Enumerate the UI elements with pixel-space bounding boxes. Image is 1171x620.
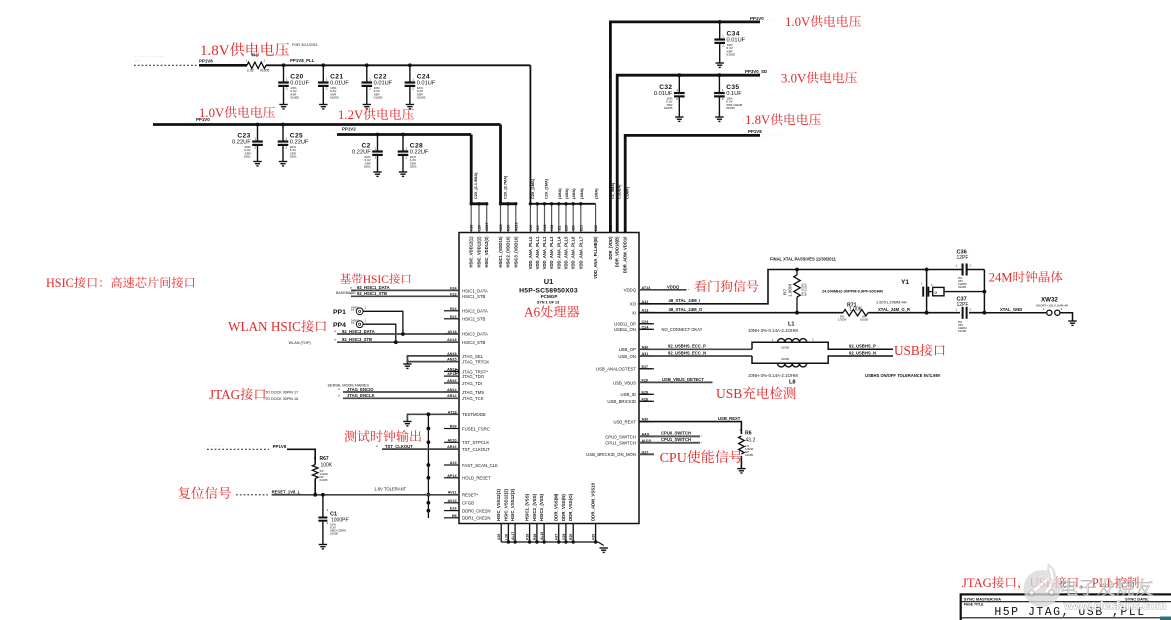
wire XW32 to ground: [1060, 313, 1073, 321]
wire USB N through choke: [752, 356, 893, 363]
wire PP1V8 to R67: [287, 449, 315, 464]
wire HSIC3_DATA: [337, 333, 459, 335]
svg-text:1/32W: 1/32W: [838, 318, 847, 322]
wire C36 right: [983, 270, 985, 313]
svg-text:AE16: AE16: [514, 222, 518, 231]
capacitor C35: [718, 75, 720, 93]
wire PP1V8 to R1: [199, 64, 247, 67]
svg-text:HSIC2_DATA: HSIC2_DATA: [462, 309, 488, 314]
svg-text:J21: J21: [557, 225, 561, 231]
wire PP1V2 down: [470, 135, 473, 204]
svg-text:C32: C32: [659, 84, 672, 91]
svg-text:DDR_VSS(M): DDR_VSS(M): [554, 493, 559, 521]
svg-text:HSIC_VDD12(1): HSIC_VDD12(1): [469, 236, 474, 268]
svg-text:01005: 01005: [727, 53, 736, 57]
svg-text:1: 1: [255, 137, 257, 141]
svg-text:24M: 24M: [989, 271, 1013, 285]
svg-text:SHORT+102-0.1MM-4H: SHORT+102-0.1MM-4H: [1036, 303, 1068, 307]
capacitor C28: [402, 135, 404, 152]
wire TESTMODE to ground: [407, 414, 459, 421]
test clock output label: [344, 430, 356, 442]
svg-text:R29: R29: [569, 534, 573, 540]
svg-text:HSIC3_DATA: HSIC3_DATA: [462, 332, 488, 337]
pin bubble JTAG_TRST: [455, 370, 459, 374]
svg-text:1: 1: [327, 508, 329, 512]
svg-text:·· ··: ·· ··: [762, 136, 767, 140]
strap bus vertical: [427, 414, 429, 518]
svg-text:TST_CLKOUT: TST_CLKOUT: [385, 444, 413, 449]
svg-text:3.0V: 3.0V: [781, 71, 807, 85]
svg-text:L1: L1: [788, 322, 795, 328]
svg-text:2: 2: [812, 338, 814, 342]
svg-text:1: 1: [676, 88, 678, 92]
svg-text:C2X_[1MA]: C2X_[1MA]: [531, 178, 535, 199]
svg-text:C23: C23: [237, 132, 250, 139]
svg-text:92_HSIC3_DATA: 92_HSIC3_DATA: [342, 329, 375, 334]
resistor R67: [312, 465, 318, 479]
svg-text:12PF: 12PF: [957, 255, 969, 261]
svg-text:0201: 0201: [290, 155, 297, 159]
svg-text:1: 1: [405, 147, 407, 151]
svg-text:TP: TP: [351, 321, 355, 325]
svg-text:USB_OP: USB_OP: [619, 347, 637, 352]
junction C24: [408, 63, 412, 67]
wire PP1 to HSIC3_DATA: [363, 311, 403, 334]
junction C20: [282, 63, 286, 67]
junction C35: [718, 73, 722, 77]
svg-text:1.00K: 1.00K: [849, 307, 863, 313]
svg-text:· · · · · · · ·: · · · · · · · ·: [208, 444, 223, 448]
stub USB11_OP/ON: [639, 323, 652, 325]
svg-text:HSIC1_DATA: HSIC1_DATA: [462, 288, 488, 293]
wire XTAL_24M_O: [639, 312, 843, 314]
svg-text:2: 2: [722, 44, 724, 48]
watermark text 电子发烧友: [1062, 579, 1166, 613]
svg-text:„: „: [701, 440, 703, 444]
svg-text:USB_BRICKID_ON_MON: USB_BRICKID_ON_MON: [586, 452, 636, 457]
svg-text:C2X_[2.7MA]: C2X_[2.7MA]: [504, 175, 508, 199]
svg-text:1: 1: [246, 59, 248, 63]
svg-text:PP1V0: PP1V0: [196, 117, 210, 122]
svg-text:JTAG_ENCIO: JTAG_ENCIO: [347, 387, 374, 392]
baseband HSIC label: [340, 273, 351, 283]
svg-text:USB_ANALOGTEST: USB_ANALOGTEST: [596, 367, 636, 372]
wire PP1V0 down: [499, 125, 502, 204]
svg-text:1.8V: 1.8V: [745, 113, 771, 127]
svg-text:PP1V8: PP1V8: [273, 444, 287, 449]
capacitor C22: [366, 65, 368, 82]
svg-text:01005: 01005: [260, 69, 270, 73]
svg-text:USB_REXT: USB_REXT: [613, 420, 636, 425]
svg-text:„: „: [701, 433, 703, 437]
reset signal label: [178, 487, 190, 499]
svg-text:2: 2: [412, 87, 414, 91]
svg-text:TST_STPCLK: TST_STPCLK: [462, 440, 489, 445]
svg-text:DDR_VDD18(B): DDR_VDD18(B): [615, 236, 620, 267]
capacitor C21: [322, 65, 324, 82]
svg-text:PAGE TITLE: PAGE TITLE: [964, 603, 984, 607]
svg-text:01005: 01005: [374, 96, 383, 100]
svg-text:CFGB: CFGB: [462, 501, 474, 506]
svg-text:2: 2: [255, 146, 257, 150]
svg-text:01005: 01005: [745, 453, 753, 457]
svg-text:01005: 01005: [781, 345, 789, 349]
svg-text:AL17: AL17: [511, 532, 515, 540]
svg-text:1.8V: 1.8V: [200, 43, 230, 59]
svg-text:AL16: AL16: [540, 532, 544, 540]
svg-text:C24: C24: [417, 73, 430, 80]
stubs USB_ID / USB_BRICKID: [639, 393, 652, 395]
svg-text:C28: C28: [410, 142, 423, 149]
svg-text:01005: 01005: [726, 106, 735, 110]
wire USB P through choke: [752, 342, 893, 349]
junction C22: [365, 63, 369, 67]
svg-text:(1MA): (1MA): [565, 188, 569, 199]
svg-text:VDD_ANA_PLL4: VDD_ANA_PLL4: [556, 236, 561, 269]
svg-text:2.32: 2.32: [247, 69, 254, 73]
svg-text:G19: G19: [529, 224, 533, 231]
wire HSIC1_STB: [351, 295, 459, 297]
capacitor C2: [377, 135, 379, 152]
svg-text:(1MA): (1MA): [580, 188, 584, 199]
svg-text:CPU1_SWITCH: CPU1_SWITCH: [661, 437, 691, 442]
svg-text:USB_REXT: USB_REXT: [718, 416, 741, 421]
resistor R7: [795, 268, 799, 272]
svg-text:PP1V8: PP1V8: [748, 129, 762, 134]
resistor R71: [843, 310, 868, 316]
svg-text:XTAL_24M_O_R: XTAL_24M_O_R: [878, 307, 910, 312]
svg-text:2: 2: [369, 87, 371, 91]
svg-text:HOLD_RESET: HOLD_RESET: [462, 476, 491, 481]
svg-text:1: 1: [722, 35, 724, 39]
svg-text:R1: R1: [252, 53, 258, 59]
wire HSIC1_DATA: [351, 289, 459, 291]
junction C23: [256, 123, 260, 127]
svg-text:·· ··: ·· ··: [135, 59, 140, 63]
svg-text:C3UBA]: C3UBA]: [618, 184, 622, 199]
svg-text:Y1: Y1: [901, 279, 909, 286]
off-page dotted stub PP1V8: [134, 64, 197, 66]
svg-text:(1MA): (1MA): [572, 188, 576, 199]
capacitor C24: [409, 65, 411, 82]
svg-text:HSIC3_(VDD10): HSIC3_(VDD10): [513, 236, 518, 268]
wire PP1V8 right rail: [625, 135, 760, 232]
svg-text:(1MA): (1MA): [558, 188, 562, 199]
svg-text:2: 2: [931, 283, 933, 287]
svg-text:USB: USB: [716, 386, 742, 401]
svg-text:CPU: CPU: [660, 451, 687, 466]
resistor R1: [247, 62, 266, 68]
svg-text:FAST_SCAN_CLK: FAST_SCAN_CLK: [462, 463, 498, 468]
resistor R6: [739, 436, 745, 454]
stub USB_BRICKID_ON_MON: [639, 453, 654, 455]
svg-text:HSIC1_(VDD10): HSIC1_(VDD10): [498, 236, 503, 268]
svg-text:www.elecfans.com: www.elecfans.com: [1063, 599, 1166, 613]
svg-text:DDR_ADM_VSS10: DDR_ADM_VSS10: [591, 482, 596, 521]
wire USB_VBUS_DETECT: [639, 381, 713, 383]
svg-text:1: 1: [956, 264, 958, 268]
svg-text:M26: M26: [499, 224, 503, 231]
wire CPU0_SWITCH: [639, 435, 700, 437]
svg-text:C21: C21: [330, 73, 343, 80]
svg-text:E22: E22: [594, 225, 598, 231]
title block: [961, 594, 1171, 620]
teal corner strip: [1160, 617, 1171, 620]
svg-text:1.8V TOLERANT: 1.8V TOLERANT: [374, 486, 406, 491]
wire JTAG_ENCIO: [343, 391, 459, 393]
svg-text:01005: 01005: [417, 96, 426, 100]
svg-text:TO DOCK 30PIN 17: TO DOCK 30PIN 17: [265, 390, 298, 394]
svg-text:DDR_VSS(N): DDR_VSS(N): [561, 494, 566, 521]
svg-text:CPU0_SWITCH: CPU0_SWITCH: [661, 431, 691, 436]
svg-text:HSIC_VSS12(2): HSIC_VSS12(2): [503, 488, 508, 521]
svg-text:2: 2: [970, 308, 972, 312]
wire TST_CLKOUT: [382, 448, 459, 450]
svg-text:1: 1: [326, 78, 328, 82]
svg-text:SYNC MASTER:N/A: SYNC MASTER:N/A: [964, 596, 1001, 601]
svg-text:HSIC: HSIC: [46, 276, 74, 290]
svg-text:H18: H18: [550, 225, 554, 231]
junction PP1/HSIC3_DATA: [401, 332, 405, 336]
svg-text:XTAL_GND: XTAL_GND: [1000, 307, 1022, 312]
svg-text:C20: C20: [290, 73, 303, 80]
svg-text:0201: 0201: [364, 165, 371, 169]
svg-text:92_USBHS_ECC_P: 92_USBHS_ECC_P: [668, 344, 706, 349]
svg-text:2: 2: [326, 87, 328, 91]
svg-text:G26: G26: [609, 224, 613, 231]
svg-text:USB_VBUS_DETECT: USB_VBUS_DETECT: [662, 377, 704, 382]
svg-text:USB_ID: USB_ID: [620, 392, 636, 397]
dotted stub RESET_1V8_L: [236, 494, 268, 496]
stub USB_ANALOGTEST: [639, 368, 652, 370]
ground R6: [737, 469, 745, 473]
svg-text:USB_VBUS: USB_VBUS: [613, 380, 636, 385]
svg-text:FINAL XTAL PASSIVES 11/30/2011: FINAL XTAL PASSIVES 11/30/2011: [770, 257, 837, 262]
svg-text:CPU0_SWITCH: CPU0_SWITCH: [605, 434, 636, 439]
svg-text:C2X_[1.1.9MA]: C2X_[1.1.9MA]: [474, 172, 478, 199]
svg-text:C2MA]: C2MA]: [626, 186, 630, 199]
PP1V2 pin bus: [471, 202, 487, 205]
junction C34: [718, 20, 722, 24]
svg-text:C1_9MA]: C1_9MA]: [611, 182, 615, 199]
coil L1 top: [778, 339, 807, 343]
svg-text:„: „: [688, 287, 690, 291]
svg-text:CPU1_SWITCH: CPU1_SWITCH: [605, 441, 636, 446]
svg-text:1: 1: [956, 308, 958, 312]
svg-text:«: «: [338, 388, 340, 392]
svg-text:K28: K28: [526, 534, 530, 540]
svg-text:1.00M: 1.00M: [787, 284, 792, 297]
svg-text:HSIC_VSS12(1): HSIC_VSS12(1): [496, 488, 501, 521]
svg-text:1: 1: [772, 338, 774, 342]
junction PP4/HSIC3_STB: [394, 340, 398, 344]
svg-text:92_HSIC1_DATA: 92_HSIC1_DATA: [357, 285, 390, 290]
svg-text:C22: C22: [374, 73, 387, 80]
svg-text:48_XTAL_24M_O: 48_XTAL_24M_O: [669, 307, 703, 312]
svg-text:01005: 01005: [330, 96, 339, 100]
svg-text:DDR_VSS(O): DDR_VSS(O): [568, 493, 573, 521]
svg-text:H29: H29: [592, 534, 596, 540]
svg-text:2: 2: [285, 146, 287, 150]
svg-text:L8: L8: [789, 380, 796, 386]
svg-text:J26: J26: [616, 225, 620, 231]
svg-text:100K: 100K: [321, 463, 333, 469]
svg-text:92_USBHS_N: 92_USBHS_N: [849, 350, 876, 355]
watchdog signal label: [694, 280, 706, 292]
capacitor C32: [678, 75, 680, 93]
svg-text:C25: C25: [290, 132, 303, 139]
svg-text:PP1V2: PP1V2: [342, 127, 356, 132]
svg-text:R6: R6: [745, 431, 752, 437]
wire HSIC3_STB: [337, 341, 459, 343]
bottom pin bus to ground: [500, 524, 502, 543]
junction C25: [281, 123, 285, 127]
svg-text:PP1: PP1: [333, 309, 346, 316]
svg-text:1: 1: [412, 78, 414, 82]
junction C2: [376, 133, 380, 137]
wire JTAG_ENCLK: [343, 397, 459, 399]
svg-text:PP3V0_SD: PP3V0_SD: [745, 69, 767, 74]
svg-text:K26: K26: [470, 225, 474, 231]
svg-text:01005: 01005: [860, 318, 868, 322]
capacitor C34: [719, 22, 721, 40]
svg-text:10NH-3%-0.14A-2.1OHM: 10NH-3%-0.14A-2.1OHM: [748, 328, 798, 333]
wire JTAG_SEL to ground: [407, 356, 459, 364]
svg-text:HSIC2_(VDD10): HSIC2_(VDD10): [506, 236, 511, 268]
svg-text:2: 2: [405, 156, 407, 160]
svg-text:1: 1: [286, 78, 288, 82]
svg-text:1: 1: [921, 282, 923, 286]
svg-text:USB11_ON: USB11_ON: [614, 327, 636, 332]
svg-text:VDDQ: VDDQ: [624, 288, 637, 293]
wire PP1V2: [337, 133, 471, 136]
svg-text:01005: 01005: [958, 285, 966, 289]
svg-text:USB_BRICKID: USB_BRICKID: [607, 399, 636, 404]
ground bottom bus: [600, 548, 608, 552]
svg-text:92_HSIC3_STB: 92_HSIC3_STB: [342, 337, 372, 342]
svg-text:USB11_OP: USB11_OP: [614, 322, 636, 327]
svg-text:92_USBHS_ECC_N: 92_USBHS_ECC_N: [668, 350, 706, 355]
svg-text:WLAN (TOP): WLAN (TOP): [289, 341, 312, 345]
svg-text:H27: H27: [555, 534, 559, 540]
capacitor C25: [282, 125, 284, 142]
svg-text:VDD_ANA_PLL2: VDD_ANA_PLL2: [542, 236, 547, 269]
svg-text:G18: G18: [543, 224, 547, 231]
svg-text:· ··: · ··: [778, 72, 782, 76]
svg-text:TO DOCK 30PIN 16: TO DOCK 30PIN 16: [265, 397, 298, 401]
svg-text:(1MA): (1MA): [595, 188, 599, 199]
svg-text:PP1V0: PP1V0: [750, 16, 764, 21]
svg-text:USBHS ON/OFF TOLERANCE 5V/1.98: USBHS ON/OFF TOLERANCE 5V/1.98V: [865, 373, 941, 378]
svg-text:G20: G20: [624, 224, 628, 231]
svg-text:1: 1: [365, 318, 367, 322]
svg-text:XO: XO: [630, 302, 637, 307]
svg-text:AE17: AE17: [485, 222, 489, 231]
svg-text:01005: 01005: [330, 532, 338, 536]
svg-text:A26: A26: [497, 534, 501, 540]
wire Y1 to C36/C37 rail: [944, 291, 984, 293]
svg-text:VDD_ANA_PLL7: VDD_ANA_PLL7: [578, 236, 583, 269]
coil L8 bottom: [778, 363, 807, 367]
wire PP4 to HSIC3_STB: [363, 324, 396, 342]
svg-text:48_XTAL_24M_I: 48_XTAL_24M_I: [669, 298, 701, 303]
svg-text:R28: R28: [533, 534, 537, 540]
capacitor C23: [257, 125, 259, 142]
svg-text:A6: A6: [524, 305, 541, 320]
svg-text:2: 2: [286, 87, 288, 91]
svg-text:01005: 01005: [664, 106, 673, 110]
svg-text:TST_CLKOUT: TST_CLKOUT: [462, 447, 490, 452]
wire XTAL_GND: [984, 312, 1046, 314]
junction R67/reset: [313, 493, 317, 497]
svg-text:NP 01005: NP 01005: [804, 283, 808, 296]
svg-text:VDD_ANA_PLLHB(B): VDD_ANA_PLLHB(B): [593, 236, 598, 279]
junction C1/reset: [321, 493, 325, 497]
svg-text:01005: 01005: [781, 357, 789, 361]
svg-text:RESET_1V8_L: RESET_1V8_L: [272, 489, 301, 494]
svg-text:VDD_ANA_PLL1: VDD_ANA_PLL1: [535, 236, 540, 269]
svg-text:G26: G26: [562, 533, 566, 540]
svg-text:M: M: [935, 291, 938, 295]
wire PP1V8_PLL: [266, 64, 530, 66]
svg-text:1: 1: [285, 137, 287, 141]
svg-text:VDD_ANA_PLL6: VDD_ANA_PLL6: [571, 236, 576, 269]
svg-text:L26: L26: [478, 225, 482, 231]
stub VDDQ: [639, 289, 687, 291]
svg-text:·· ·: ·· ·: [330, 128, 334, 132]
PP1V8_PLL pin bus: [530, 203, 595, 205]
svg-text:«: «: [350, 286, 352, 290]
svg-text:XI: XI: [632, 310, 636, 315]
svg-text:PP1V8: PP1V8: [199, 59, 213, 64]
junction C21: [321, 63, 325, 67]
svg-text:L28: L28: [504, 534, 508, 540]
svg-text:HSIC3_(VSS): HSIC3_(VSS): [539, 493, 544, 521]
svg-text:JTAG: JTAG: [209, 387, 241, 402]
PP1V0 pin bus: [501, 202, 516, 205]
svg-text:2: 2: [327, 521, 329, 525]
svg-text:C35: C35: [726, 84, 739, 91]
svg-text:«: «: [338, 394, 340, 398]
svg-text:1: 1: [369, 78, 371, 82]
svg-text:2: 2: [676, 97, 678, 101]
dotted stub PP1V8 reset: [207, 448, 269, 450]
svg-text:VDD_ANA_PLL0: VDD_ANA_PLL0: [528, 236, 533, 269]
capacitor C1: [322, 495, 324, 518]
svg-text:2: 2: [1061, 307, 1063, 311]
svg-text:JTAG_TRTCK: JTAG_TRTCK: [462, 360, 489, 365]
svg-text:USB_ON: USB_ON: [618, 354, 636, 359]
svg-text:BASEBAND: BASEBAND: [336, 291, 356, 295]
svg-text:JTAG_TCK: JTAG_TCK: [462, 396, 484, 401]
svg-text:WLAN HSIC: WLAN HSIC: [228, 319, 301, 334]
wire USB_ON: [639, 355, 752, 357]
svg-text:JTAG: JTAG: [962, 576, 992, 590]
svg-text:DDR1_CKE2N: DDR1_CKE2N: [462, 516, 490, 521]
svg-text:DDR_ADM_VDD10: DDR_ADM_VDD10: [623, 236, 628, 273]
junction C28: [401, 133, 405, 137]
wire RESET to IC: [272, 494, 459, 496]
svg-text:DDR0_CKE2N: DDR0_CKE2N: [462, 509, 490, 514]
svg-text:J20: J20: [572, 225, 576, 231]
svg-text:VDDQ: VDDQ: [667, 284, 680, 289]
svg-text:FOR 3/21/2011: FOR 3/21/2011: [292, 43, 318, 47]
svg-text:NO_CONNECT OKAY: NO_CONNECT OKAY: [662, 327, 703, 332]
svg-text:0201: 0201: [244, 155, 251, 159]
svg-text:U1: U1: [544, 277, 553, 286]
svg-text:VDD_ANA_PLL3: VDD_ANA_PLL3: [549, 236, 554, 269]
watermark stamp: [1024, 563, 1061, 607]
